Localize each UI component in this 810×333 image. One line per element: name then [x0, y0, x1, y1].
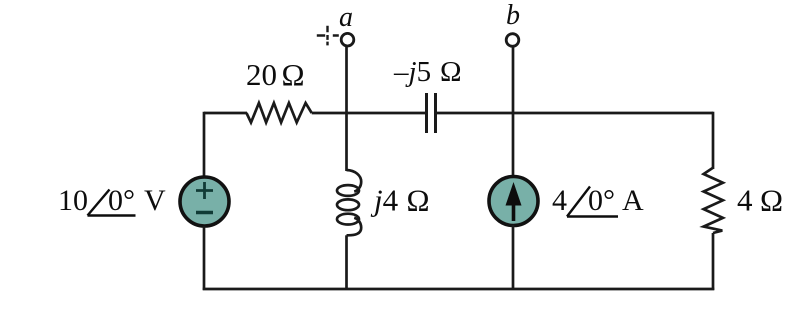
wire: current source to bottom rail — [512, 225, 515, 290]
wire: top rail right segment (capacitor to right corner) — [436, 112, 714, 115]
svg-text:Ω: Ω — [440, 56, 462, 88]
capacitor C -j5 ohm right plate — [434, 93, 437, 133]
svg-text:20: 20 — [246, 57, 277, 92]
svg-text:0°: 0° — [108, 184, 135, 217]
svg-text:Ω: Ω — [407, 183, 430, 218]
resistor R 20ohm zigzag on top rail — [247, 103, 312, 123]
current source IS 4/0 A circle — [489, 177, 538, 226]
wire: terminal b lead down to top rail — [512, 46, 515, 114]
wire: right vertical top (corner to resistor 4ohm) — [712, 112, 715, 169]
svg-text:a: a — [339, 2, 353, 33]
inductor bottom hook — [347, 218, 362, 236]
voltage source plus sign — [196, 182, 213, 199]
svg-text:V: V — [144, 184, 166, 217]
voltage source minus sign — [196, 211, 213, 214]
inductor loop 3 — [337, 214, 359, 225]
svg-text:A: A — [622, 184, 644, 217]
angle symbol underline for source A — [567, 215, 618, 217]
svg-text:Ω: Ω — [760, 183, 783, 218]
terminal a circle — [341, 33, 354, 46]
terminal b circle — [506, 34, 519, 47]
capacitor C -j5 ohm left plate — [425, 93, 428, 133]
angle symbol diagonal for source V — [88, 190, 110, 216]
resistor R 4ohm vertical zigzag — [704, 168, 723, 233]
svg-text:10: 10 — [58, 184, 88, 217]
svg-text:0°: 0° — [588, 184, 615, 217]
voltage source VS 10/0 V circle — [180, 177, 229, 226]
plus polarity dashed cross near a — [317, 26, 339, 46]
wire: top rail left segment (left corner to resistor) — [204, 112, 247, 115]
wire: terminal a lead down to top rail — [345, 46, 348, 114]
angle symbol underline for source V — [88, 214, 136, 216]
svg-text:4: 4 — [737, 183, 753, 218]
wire: node b vertical to current source top — [512, 113, 515, 178]
wire: left vertical bottom (voltage source to bottom rail) — [203, 226, 206, 290]
wire: node a vertical to inductor top — [345, 113, 348, 171]
wire: right vertical bottom (resistor to bottom rail) — [712, 233, 715, 290]
current source arrow shaft — [512, 203, 516, 221]
svg-text:j4: j4 — [370, 183, 399, 218]
svg-text:4: 4 — [552, 184, 567, 217]
current source arrow head — [506, 182, 522, 206]
wire: bottom rail — [203, 288, 715, 291]
wire: inductor bottom to bottom rail — [345, 235, 348, 290]
svg-text:–j5: –j5 — [393, 56, 431, 88]
inductor loop 1 — [337, 185, 359, 196]
angle symbol diagonal for source A — [567, 187, 590, 217]
inductor L j4 ohm top hook — [347, 170, 362, 192]
wire: left vertical top (corner down to voltage source) — [203, 112, 206, 177]
inductor loop 2 — [337, 199, 359, 210]
svg-text:Ω: Ω — [282, 57, 305, 92]
svg-text:b: b — [506, 0, 520, 31]
wire: top rail middle segment (resistor to capacitor left plate) — [312, 112, 427, 115]
